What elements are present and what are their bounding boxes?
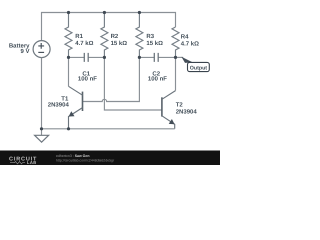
svg-text:Output: Output: [190, 65, 208, 71]
battery B1: [33, 41, 50, 58]
node: ground junction: [40, 127, 43, 130]
resistor R2: [101, 13, 108, 58]
svg-text:100 nF: 100 nF: [148, 76, 167, 83]
wire battery to ground rail: [41, 58, 43, 129]
capacitor C1: [69, 53, 105, 62]
output flag pointer: [181, 57, 192, 63]
svg-text:R4: R4: [181, 33, 189, 40]
svg-text:9 V: 9 V: [20, 48, 29, 55]
wire R2 bottom through hop to T2 base: [104, 57, 161, 110]
node: T1 collector / C1: [67, 56, 70, 59]
C2 label: [148, 71, 167, 83]
battery label: [9, 42, 30, 55]
C1 label: [78, 71, 97, 83]
T2 label: [176, 102, 198, 116]
svg-text:LAB: LAB: [27, 160, 37, 165]
node: junction V+ / R2: [103, 11, 106, 14]
R4 label: [181, 33, 199, 47]
svg-text:R1: R1: [75, 33, 83, 40]
resistor R4: [172, 27, 179, 57]
svg-text:100 nF: 100 nF: [78, 76, 97, 83]
svg-text:4.7 kΩ: 4.7 kΩ: [75, 40, 93, 47]
svg-text:R3: R3: [146, 33, 154, 40]
wire bottom rail: [42, 128, 175, 130]
svg-text:R2: R2: [111, 33, 119, 40]
R3 label: [146, 33, 163, 47]
footer logo CIRCUIT LAB: [9, 157, 37, 166]
wire T1 base to R3 with hop over R2 drop: [83, 57, 140, 101]
wire top rail V+: [42, 13, 176, 41]
svg-text:2N3904: 2N3904: [176, 108, 198, 115]
wire R4 bottom to T2 collector: [175, 57, 177, 90]
node: C1 / R2: [103, 56, 106, 59]
T1 label: [48, 96, 70, 109]
transistor T2 2N3904 (NPN): [162, 91, 176, 129]
node A: junction V+ / R1: [67, 11, 70, 14]
svg-text:http://circuitlab.com/c2448dla: http://circuitlab.com/c2448dla62de5gr: [56, 158, 115, 162]
ground: [35, 129, 49, 142]
resistor R3: [136, 13, 143, 58]
node: T1 emitter / rail: [67, 127, 70, 130]
wire to output flag: [176, 56, 184, 58]
resistor R1: [65, 13, 72, 58]
svg-text:T2: T2: [176, 102, 184, 109]
capacitor C2: [139, 53, 175, 62]
svg-text:15 kΩ: 15 kΩ: [146, 40, 163, 47]
wire R1 bottom to T1 collector: [68, 57, 70, 86]
footer bar: [0, 151, 220, 166]
node: R3 / C2: [138, 56, 141, 59]
svg-text:2N3904: 2N3904: [48, 102, 70, 109]
svg-text:edherton3 : Saw Gen: edherton3 : Saw Gen: [56, 154, 89, 158]
node: junction V+ / R3: [138, 11, 141, 14]
R1 label: [75, 33, 93, 47]
output flag box: [188, 62, 210, 71]
svg-text:15 kΩ: 15 kΩ: [111, 40, 128, 47]
node: C2 / R4 / output: [174, 56, 177, 59]
transistor T1 2N3904 (mirrored NPN): [69, 86, 83, 129]
svg-text:4.7 kΩ: 4.7 kΩ: [181, 40, 199, 47]
R2 label: [111, 33, 128, 47]
